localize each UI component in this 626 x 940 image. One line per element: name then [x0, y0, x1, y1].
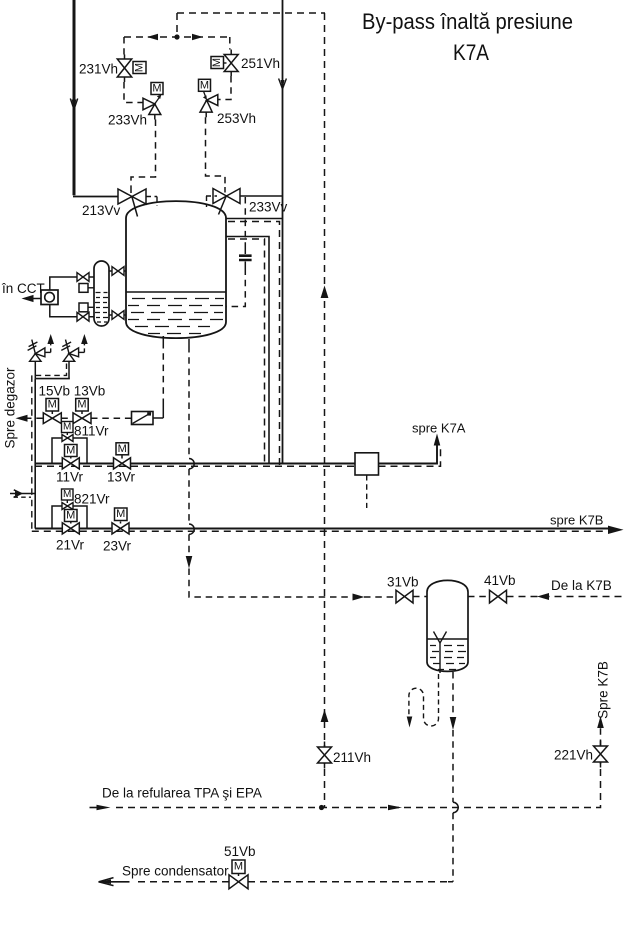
bypass loop of 821Vr	[52, 506, 87, 529]
arrow: spre K7A up	[434, 434, 441, 446]
svg-text:251Vh: 251Vh	[241, 56, 280, 71]
valve 31Vb	[396, 590, 413, 603]
svg-text:31Vb: 31Vb	[387, 575, 419, 590]
svg-text:211Vh: 211Vh	[333, 750, 371, 765]
valve 51Vb	[229, 874, 248, 889]
valve 251Vh	[224, 50, 238, 77]
safety valve SV1	[28, 340, 51, 362]
arrow: Spre K7B up	[597, 716, 604, 728]
wire: 221Vh up to Spre K7B	[600, 728, 602, 746]
svg-text:Spre condensator: Spre condensator	[122, 864, 229, 879]
wire: SV1 drain stem	[34, 361, 36, 378]
arrow: TPA inlet right	[97, 805, 111, 811]
actuator of 13Vb	[76, 399, 89, 412]
arrow: flow down on right steam line	[279, 79, 287, 90]
actuator of 15Vb	[46, 399, 59, 412]
svg-text:13Vr: 13Vr	[107, 470, 136, 485]
svg-text:K7A: K7A	[453, 40, 489, 65]
arrow: flow right to flash pot	[353, 594, 365, 601]
arrow: drain flow down	[186, 556, 193, 569]
valve 253Vh angle	[200, 95, 218, 118]
valve 41Vb	[490, 590, 507, 603]
wire: safety drain header dashed	[32, 364, 66, 376]
valve 23Vr	[112, 522, 129, 535]
actuator of 821Vr	[62, 489, 74, 500]
flash pot hatching	[430, 646, 466, 670]
svg-text:811Vr: 811Vr	[74, 424, 109, 439]
svg-text:11Vr: 11Vr	[56, 470, 84, 485]
svg-text:M: M	[63, 489, 71, 500]
arrow: up flow lower bypass vertical	[321, 710, 329, 723]
wire: dashed 253Vh down to 233Vv stem	[206, 117, 226, 187]
bypass loop of 811Vr	[52, 438, 87, 464]
wire: Spre condensator dashed	[99, 881, 130, 883]
actuator of 811Vr	[62, 422, 74, 433]
svg-text:M: M	[116, 508, 125, 520]
svg-text:51Vb: 51Vb	[224, 844, 256, 859]
wire: dashed drop to valve 251Vh	[229, 37, 231, 50]
vessel: main flash tank	[126, 201, 226, 338]
svg-text:Spre degazor: Spre degazor	[3, 367, 18, 449]
wire: De la K7B dashed	[507, 596, 625, 598]
node: junction TPA line	[319, 805, 324, 810]
svg-text:De la K7B: De la K7B	[551, 578, 612, 593]
valve: gauge isolation top-left	[77, 273, 89, 282]
wire: inner dashed riser	[228, 239, 265, 466]
wire: thick steam inlet left vertical	[73, 0, 118, 197]
instrument: level switch upper	[79, 284, 94, 293]
safety valve SV2	[61, 340, 84, 362]
arrow: up flow mid bypass vertical	[321, 286, 329, 299]
actuator of 21Vr	[65, 510, 78, 522]
wire: dashed orifice leg into vessel side	[226, 269, 245, 307]
valve 11Vr	[62, 457, 79, 470]
wire: solid drop to lines A and B	[34, 379, 36, 529]
arrow: spre K7B right	[608, 526, 624, 534]
wire: inner solid riser	[226, 237, 269, 464]
arrow: trap outlet down	[407, 717, 413, 728]
wire: SV2 drain stem	[68, 361, 70, 378]
wire: outer solid from vessel to right riser	[226, 218, 283, 220]
actuator of 11Vr	[65, 445, 78, 457]
wire: solid from right vertical to valve 233Vv	[239, 195, 283, 197]
actuator of 51Vb	[232, 860, 245, 874]
svg-text:M: M	[63, 422, 71, 433]
valve: gauge isolation bottom-right	[112, 311, 124, 320]
svg-text:M: M	[48, 399, 57, 411]
svg-text:M: M	[152, 83, 161, 95]
wire: hop over line B	[189, 524, 194, 534]
instrument box on line A	[355, 453, 379, 508]
valve: gauge isolation bottom-left	[77, 312, 89, 321]
svg-text:221Vh: 221Vh	[554, 748, 593, 763]
svg-text:M: M	[211, 58, 223, 67]
arrow: to degazor left	[16, 415, 28, 422]
wire: De la refularea TPA si EPA dashed	[90, 807, 100, 809]
svg-text:M: M	[66, 510, 75, 522]
wire: gauge bottom loop	[50, 305, 126, 317]
gauge hatching	[95, 293, 108, 323]
actuator of 23Vr	[115, 508, 128, 521]
actuator of 251Vh	[211, 57, 227, 69]
svg-text:M: M	[134, 63, 146, 72]
wire: FE to vessel bottom stub	[153, 405, 163, 418]
actuator of 253Vh	[199, 79, 211, 100]
wire: outer dashed riser pair	[228, 222, 280, 467]
wire: vessel bottom drain stub right	[188, 339, 190, 346]
instrument: level switch lower	[79, 303, 94, 312]
arrow: SV2 vent up	[81, 334, 88, 344]
arrow: left flow on header	[147, 34, 158, 40]
arrow: SV1 vent up	[47, 334, 54, 344]
wire: line B solid	[35, 528, 609, 530]
wire: right steam vertical to line A	[282, 0, 284, 464]
svg-text:By-pass înaltă presiune: By-pass înaltă presiune	[362, 9, 573, 34]
wire: dashed outlet of 233Vv into dome	[206, 196, 217, 207]
wire: gauge top left line	[50, 277, 94, 290]
svg-text:M: M	[77, 399, 86, 411]
svg-text:233Vv: 233Vv	[249, 200, 288, 215]
actuator of 233Vh	[151, 83, 163, 104]
valve 211Vh	[318, 742, 332, 769]
wire: dashed 231Vh to 233Vh	[124, 82, 143, 103]
valve 821Vr	[62, 501, 73, 510]
arrow: drain flow down	[450, 717, 457, 730]
svg-text:23Vr: 23Vr	[103, 539, 132, 554]
wire: safety drain header solid	[35, 378, 70, 380]
pump to CCT	[41, 290, 58, 305]
flash pot vessel	[427, 580, 468, 671]
svg-text:M: M	[234, 861, 243, 873]
wire: dashed 251Vh to 253Vh	[218, 76, 231, 100]
svg-text:21Vr: 21Vr	[56, 538, 85, 553]
wire: line A dashed	[35, 448, 441, 467]
valve 13Vr	[114, 455, 131, 469]
wire: dashed drop to valve 231Vh	[123, 37, 125, 55]
wire: S-trap loop seal	[409, 674, 439, 726]
wire: CCT discharge with arrow	[22, 295, 42, 302]
arrow: De la K7B flow left	[537, 593, 549, 600]
wire: inlet stub with arrow to line B	[10, 490, 35, 497]
wire: main dashed bypass vertical	[324, 13, 326, 808]
wire: dashed outlet of 213Vv into dome	[146, 197, 157, 206]
valve 221Vh	[594, 741, 608, 768]
svg-text:821Vr: 821Vr	[74, 492, 110, 507]
valve 233Vh angle	[143, 98, 161, 119]
arrow: condensator flow left	[99, 878, 114, 886]
valve 811Vr	[62, 433, 73, 442]
funnel inside flash pot	[434, 632, 447, 674]
svg-text:în CCT: în CCT	[1, 281, 45, 296]
valve 231Vh	[117, 55, 131, 83]
wire: flash pot to 41Vb	[468, 596, 490, 598]
node: bypass header junction	[174, 34, 179, 39]
svg-text:233Vh: 233Vh	[108, 113, 147, 128]
valve: gauge isolation top-right	[109, 267, 126, 276]
wire: hop over TPA line	[453, 802, 458, 812]
svg-text:41Vb: 41Vb	[484, 573, 516, 588]
svg-text:spre K7B: spre K7B	[550, 513, 603, 528]
orifice restriction	[239, 247, 252, 269]
svg-text:M: M	[118, 443, 127, 455]
arrow: TPA mid flow right	[388, 805, 402, 811]
wire: line B dashed	[32, 530, 606, 532]
valve 15Vb	[43, 411, 61, 424]
level gauge column	[94, 261, 109, 326]
arrow: right flow on header	[192, 34, 203, 40]
water hatching inside vessel	[128, 299, 224, 334]
actuator of 231Vh	[133, 62, 146, 74]
svg-text:M: M	[200, 79, 209, 91]
svg-text:M: M	[66, 445, 75, 457]
wire: dashed drop to line B	[31, 375, 33, 531]
arrow: flow down on left inlet	[70, 99, 77, 110]
wire: hop over line A	[189, 459, 194, 469]
svg-text:15Vb 13Vb: 15Vb 13Vb	[39, 384, 106, 399]
svg-text:253Vh: 253Vh	[217, 111, 256, 126]
svg-text:231Vh: 231Vh	[79, 62, 118, 77]
wire: top dashed bypass header	[124, 13, 325, 37]
title	[362, 9, 573, 65]
svg-text:213Vv: 213Vv	[82, 203, 121, 218]
actuator of 13Vr	[116, 443, 129, 455]
valve 213Vv	[118, 186, 146, 217]
svg-text:De la refularea TPA şi EPA: De la refularea TPA şi EPA	[102, 786, 262, 801]
wire: dashed orifice leg from 233Vv outlet	[244, 197, 246, 247]
flow element FE	[132, 412, 154, 425]
wire: degazor dashed line	[25, 417, 131, 419]
wire: dashed 233Vh down to 213Vv stem	[131, 120, 156, 187]
svg-text:spre K7A: spre K7A	[412, 421, 466, 436]
wire: drain down then right to 31Vb	[189, 569, 396, 598]
wire: line A solid	[35, 437, 437, 464]
wire: 31Vb to flash pot	[413, 596, 427, 598]
svg-text:Spre K7B: Spre K7B	[596, 661, 611, 719]
wire: flash pot drain vertical	[448, 672, 453, 882]
valve 233Vv	[213, 187, 240, 215]
valve 13Vb	[73, 411, 91, 424]
valve 21Vr	[62, 522, 79, 535]
